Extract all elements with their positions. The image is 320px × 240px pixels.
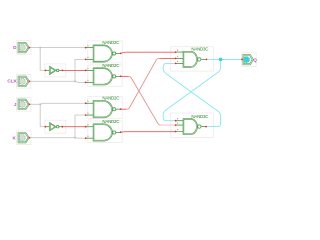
- symbol bounding box U8 NAND3: [171, 113, 214, 137]
- junction dot on Q feedback net: [219, 58, 223, 62]
- svg-text:Q: Q: [253, 57, 257, 62]
- wire: U7 output to port Q: [206, 58, 241, 60]
- NAND2 gate U6: [86, 124, 121, 141]
- pin dot U3 input 1: [85, 47, 87, 49]
- pin dot U7 input 3: [175, 63, 177, 65]
- pin dot port D output: [29, 47, 31, 49]
- junction marker on J net: [39, 104, 41, 106]
- symbol bounding box P3: [17, 98, 31, 112]
- symbol bounding box P2: [17, 75, 31, 89]
- pin dot U1 output: [62, 70, 64, 72]
- wire: port J to U5 input 1: [29, 103, 85, 104]
- symbol bounding box U2 inverter: [45, 120, 66, 133]
- pin dot U8 input 3: [175, 131, 177, 133]
- pin dot port CLK output: [29, 80, 31, 82]
- pin number marks: [88, 45, 179, 137]
- NAND2 gate U3: [86, 45, 121, 62]
- input port D symbol: [18, 42, 29, 52]
- output port Q symbol: [243, 54, 254, 64]
- wire: branch from CLK net up to U3 input 2: [75, 59, 86, 81]
- wire: branch from J net down to inverter U2 input: [40, 104, 45, 126]
- wire: pale segment into U8 input 2: [160, 124, 176, 126]
- symbol bounding box P1: [17, 41, 31, 55]
- wire: U3 output to U7 input 1: [121, 52, 176, 53]
- NAND2 gate U4: [86, 68, 121, 85]
- symbol bounding box U3 NAND2: [88, 41, 122, 63]
- symbol bounding box U5 NAND2: [88, 97, 122, 119]
- pin dot U2 output: [62, 126, 64, 128]
- svg-text:J: J: [14, 102, 17, 107]
- pin dot port J output: [29, 103, 31, 105]
- svg-text:NAND2C: NAND2C: [102, 63, 119, 68]
- pin dot U4 input 2: [85, 82, 87, 84]
- symbol bounding box P4: [17, 131, 31, 145]
- pin dot U5 output: [120, 108, 122, 110]
- wire: U5 output diagonal up to U7 input 2: [121, 108, 127, 110]
- wire: inverter U2 output to U6 input 1: [62, 126, 85, 128]
- input port J symbol: [18, 99, 29, 109]
- pin dot U3 input 2: [85, 59, 87, 61]
- svg-text:NAND2C: NAND2C: [102, 119, 119, 124]
- wire: branch from K net up to U5 input 2: [75, 115, 86, 138]
- wire: U6 output to U8 input 3: [121, 131, 176, 134]
- symbol bounding box U7 NAND3: [171, 47, 214, 71]
- svg-text:CLK: CLK: [7, 78, 17, 83]
- pin dot port Q input: [241, 59, 243, 61]
- pin dot port K output: [29, 137, 31, 139]
- wire: feedback from U8 output up to U7 input 3: [163, 63, 220, 126]
- NAND3 gate U8: [176, 119, 206, 135]
- inverter U1: [45, 66, 62, 75]
- wire: port CLK to U4 input 2: [29, 81, 85, 82]
- pin dot U5 input 2: [85, 114, 87, 116]
- wire: U4 output diagonal down to U8 input 2: [121, 75, 129, 77]
- junction marker on D net: [39, 47, 41, 49]
- pin dot U6 input 1: [85, 126, 87, 128]
- pin dot U5 input 1: [85, 102, 87, 104]
- NAND2 gate U5: [86, 101, 121, 118]
- pin dot U7 input 1: [175, 51, 177, 53]
- pin dot U8 output: [205, 126, 207, 128]
- wire: port K to U6 input 2: [29, 137, 85, 140]
- wire: feedback from Q net down to U8 input 1: [163, 59, 220, 120]
- pin dot U6 output: [120, 131, 122, 133]
- inverter U2: [45, 122, 62, 131]
- junction marker on CLK net: [74, 81, 76, 83]
- pin dot U8 input 1: [175, 120, 177, 122]
- pin dot U7 output: [206, 59, 208, 61]
- pin dot U4 output: [120, 75, 122, 77]
- wire: inverter U1 output to U4 input 1: [62, 69, 85, 71]
- symbol bounding box U4 NAND2: [88, 65, 122, 86]
- pin dot U6 input 2: [85, 137, 87, 139]
- symbol bounding box U1 inverter: [45, 64, 66, 77]
- svg-text:NAND2C: NAND2C: [102, 96, 119, 101]
- symbol bounding box U6 NAND2: [88, 121, 122, 142]
- input port K symbol: [18, 133, 29, 143]
- junction marker on K net: [74, 137, 76, 139]
- input port CLK symbol: [18, 76, 29, 86]
- pin dot U8 input 2: [175, 124, 177, 126]
- pin dot U2 input: [45, 126, 47, 128]
- pin dot U3 output: [120, 53, 122, 55]
- svg-text:NAND3C: NAND3C: [191, 47, 208, 52]
- NAND3 gate U7: [176, 51, 206, 67]
- svg-text:NAND3C: NAND3C: [191, 114, 208, 119]
- wire: branch from D net down to inverter U1 input: [40, 48, 45, 71]
- pin dot U1 input: [45, 70, 47, 72]
- pin dot U4 input 1: [85, 70, 87, 72]
- svg-text:NAND2C: NAND2C: [102, 40, 119, 45]
- pin dot U7 input 2: [175, 58, 177, 60]
- symbol bounding box Q port: [242, 53, 256, 67]
- wire: port D to U3 input 1: [29, 47, 85, 49]
